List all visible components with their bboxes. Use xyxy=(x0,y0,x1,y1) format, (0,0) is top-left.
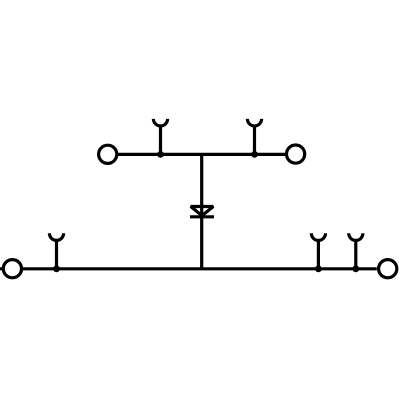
wire: bottom rail xyxy=(0,267,377,270)
node dot on bottom rail at TP4 xyxy=(315,265,322,272)
test tap TP5 (bottom rail, right outer): arc + stem xyxy=(349,233,363,268)
node dot on bottom rail at TP3 xyxy=(53,265,60,272)
terminal socket circle X3 (bottom left) xyxy=(3,260,21,278)
wire: top rail xyxy=(118,153,286,156)
diode D1 cathode bar xyxy=(190,215,214,218)
terminal socket circle X1 (top left) xyxy=(99,145,117,163)
node dot on bottom rail at TP5 xyxy=(352,265,359,272)
test tap TP3 (bottom rail, left): arc + stem xyxy=(49,233,63,268)
test tap TP4 (bottom rail, right inner): arc + stem xyxy=(311,233,325,268)
diode D1 (cathode down): triangle xyxy=(191,207,214,216)
terminal socket circle X4 (bottom right) xyxy=(379,260,397,278)
node dot on top rail at TP2 xyxy=(251,151,258,158)
wire: vertical branch from top rail to bottom rail xyxy=(200,154,203,268)
test tap TP1 (top rail, left): arc + stem xyxy=(153,119,167,154)
test tap TP2 (top rail, right): arc + stem xyxy=(247,119,261,154)
terminal socket circle X2 (top right) xyxy=(287,145,305,163)
node dot on top rail at TP1 xyxy=(157,151,164,158)
